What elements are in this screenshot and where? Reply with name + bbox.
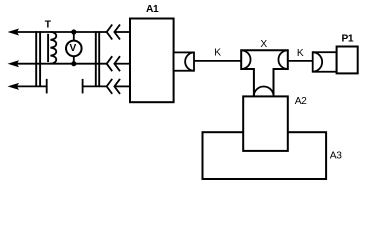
terminal bar left (46, 79, 48, 94)
tee junction X body (241, 50, 288, 96)
transformer T core line 1 (35, 31, 37, 87)
tee X bottom port cone (254, 87, 274, 97)
wire top line left segment (15, 31, 107, 33)
connector chevron bottom row 2 (114, 79, 120, 94)
connector chevron bottom row 1 (107, 79, 113, 94)
arrow left bottom (8, 83, 20, 90)
transformer T core line 2 (39, 31, 41, 87)
cable group bar 2 (98, 31, 100, 87)
arrow left top (8, 29, 20, 36)
svg-text:V: V (70, 43, 77, 54)
wire K2 (288, 60, 313, 62)
block P1 (337, 47, 358, 74)
coax transition at A1 output (174, 52, 194, 70)
cable group bar 1 (95, 31, 97, 87)
connector chevron top row 2 (114, 25, 120, 40)
wire middle line left segment (15, 63, 107, 65)
block A3 (203, 132, 327, 179)
svg-text:X: X (260, 39, 267, 50)
wire bottom line right segment (114, 85, 130, 87)
svg-text:A1: A1 (146, 4, 159, 15)
wire top line right segment (114, 31, 130, 33)
svg-text:P1: P1 (342, 34, 354, 45)
tee X right port cone (278, 50, 287, 69)
svg-text:T: T (45, 20, 52, 31)
wire V meter stem top (73, 32, 75, 41)
block A1 (130, 19, 174, 103)
svg-text:K: K (297, 48, 304, 59)
svg-text:A2: A2 (295, 96, 307, 107)
wire bottom line middle segment (83, 85, 107, 87)
block A2 (243, 96, 288, 150)
wire middle line right segment (114, 63, 130, 65)
svg-text:K: K (214, 47, 221, 58)
wire V meter stem bottom (73, 56, 75, 64)
terminal bar right (82, 79, 84, 94)
coax transition at P1 input (313, 52, 337, 72)
connector chevron middle row 1 (107, 56, 113, 71)
voltmeter V (66, 41, 82, 57)
wire bottom line left segment (15, 85, 47, 87)
transformer winding coil (50, 32, 56, 64)
svg-text:A3: A3 (330, 151, 342, 162)
tee X left port cone (241, 50, 250, 69)
node dot bottom (V meter tap) (71, 61, 76, 66)
connector chevron middle row 2 (114, 56, 120, 71)
transformer winding core bar (47, 34, 49, 62)
connector chevron top row 1 (107, 25, 113, 40)
arrow left middle (8, 60, 20, 67)
node dot top (V meter tap) (71, 29, 76, 34)
wire K1 (194, 60, 241, 62)
